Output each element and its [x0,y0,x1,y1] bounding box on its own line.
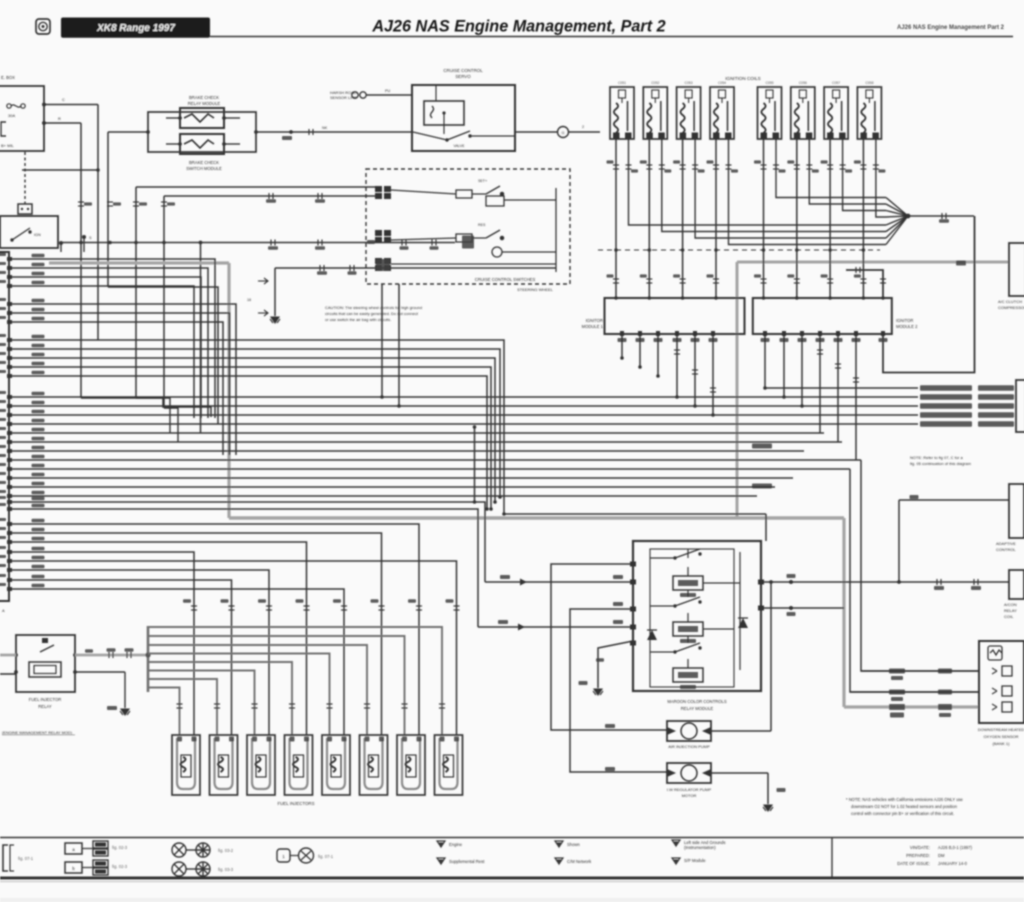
junction x474 y427 [473,425,477,429]
pin number ECM y433 [0,427,6,430]
instrument pack box right edge [1016,380,1024,432]
wire m2 pin5 elbow y442 [837,334,839,442]
wire ECM y561 to injector INJ8 [9,561,457,735]
wire riser x474 from bus y427 [474,427,476,502]
ignitor module 2 [753,298,892,334]
right box y484 [1009,484,1024,538]
wire connector circle right [569,131,600,133]
connector bracket on fuse box [1,122,6,136]
connector on coil T3 right wire [692,165,698,169]
junction x500 y497 [498,495,502,499]
connector on coil T4 left wire [713,165,719,169]
wire label ECM y502 [32,497,45,501]
junction coil T5 left wire at dashed line [762,248,766,252]
svg-text:SET+: SET+ [478,179,487,183]
pin relay module left y564 [630,562,636,567]
fuel injector relay switch [40,645,54,652]
wire stack3 across [391,263,556,265]
relay K1 [180,108,224,128]
wire stack2 to resume switch [391,238,456,240]
comb wire to injector 5 [148,654,330,736]
pin number ECM y552 [0,546,6,549]
pin number ECM y442 [0,436,6,439]
pin ECM y460 [7,458,12,462]
pin ECM y397 [7,395,12,399]
svg-text:OXYGEN SENSOR: OXYGEN SENSOR [983,734,1018,739]
connector on injector INJ8 signal wire [454,606,460,610]
ground label [579,681,588,685]
node fuse box pin A [42,103,46,107]
wire label blob [282,136,292,140]
SET switch assembly [456,186,520,206]
wire riser x164 [163,196,165,408]
wire ECM y259 elbow x215 [9,259,215,418]
footer divider [831,837,833,877]
pin ECM y469 [7,467,12,471]
pin number ECM y367 [0,361,6,364]
connector on coil T8 right wire [873,165,879,169]
pin injector INJ8 right [454,737,459,742]
svg-text:FUEL INJECTOR: FUEL INJECTOR [29,697,62,702]
wire bundle loop to ignitor module 2 bottom pin [883,216,975,373]
pin ECM y376 [7,374,12,378]
pin number ECM y469 [0,463,6,466]
connector on bundle wire [942,213,946,219]
wire servo to connector circle [515,131,557,133]
connector on riser x81 [78,202,84,206]
connector on coil T2 left wire [646,165,652,169]
wire coil T4 right pin to bundle [729,139,887,245]
pin label x765 [761,338,770,342]
wire ECM y570 to injector INJ3 [9,570,269,735]
wire coil T6 right pin to bundle [809,139,886,204]
connector on coil T1 left wire [613,165,619,169]
ignition coil T4 [710,87,734,139]
connector on coil T4 left wire lower [713,279,719,283]
pin injector INJ1 right [192,737,197,742]
right box y570 [1009,570,1024,599]
wire riser x136 [135,187,137,398]
wire riser x899 [898,500,900,582]
wire fan segment coil T2 [886,216,908,232]
pin number ECM y415 [0,409,6,412]
header rule [210,36,1013,38]
relay RM1 switch [675,549,700,558]
legend ground symbols column 3 [672,840,680,846]
wire y500 to right box [899,499,1009,501]
wire pump M2 right [711,772,768,774]
connector arrow on wire y582 [520,579,527,586]
wire ECM y367 elbow down x491 [9,367,491,509]
svg-text:VIN/DATE:: VIN/DATE: [910,845,930,850]
wire ECM bus y460 to x856 [9,459,856,461]
comb wire to injector 4 [148,662,292,735]
wire label ECM y397 [32,392,45,396]
connector m2 pin6 [853,378,859,382]
connector on coil T5 left wire lower [761,279,767,283]
svg-text:30A: 30A [8,113,15,118]
ignition coil T6 [791,87,815,139]
svg-text:fig. 02-3: fig. 02-3 [112,845,128,850]
pin ignitor module top [648,296,652,300]
ground fuel injector relay [120,709,130,715]
svg-text:PU: PU [385,89,391,93]
svg-text:downstream O2 NOT for 1.02 hea: downstream O2 NOT for 1.02 heated sensor… [851,804,958,809]
svg-text:MAROON COLOR CONTROLS: MAROON COLOR CONTROLS [667,699,727,704]
connector m1 pin4 [674,350,680,354]
svg-text:MODULE 1: MODULE 1 [582,324,604,329]
connector on injector 3 supply wire [252,704,258,708]
wire m1 pin1 to bus y358 [621,334,623,358]
svg-text:FUEL INJECTORS: FUEL INJECTORS [277,801,314,806]
connector on injector 5 supply wire [327,704,333,708]
wire label ECM y589 [32,584,45,588]
wire label ECM y349 [32,344,45,348]
relay K1 fuse element [184,114,214,122]
svg-text:C057: C057 [832,81,840,85]
connector on coil T5 right wire [773,165,779,169]
wire x861 down to O2 row y671 [861,460,979,671]
wire drop to ground x125 [124,672,126,708]
junction y608 x791 [789,606,793,610]
wire coil T6 primary left pin down [796,139,798,298]
pin ECM y570 [7,568,12,572]
pin ignitor module bottom x640 [638,331,642,336]
pin injector INJ5 right [342,737,347,742]
svg-text:fig. 07-1: fig. 07-1 [18,856,34,861]
comb wire to injector 2 [148,679,217,735]
svg-text:A: A [2,608,5,613]
fuel injector INJ6 [360,735,388,795]
wire coil T3 primary left pin down [682,139,684,298]
wire m2 pin4 elbow y433 [819,334,821,433]
wire label ECM y460 [32,455,45,459]
pin ignitor module top [714,296,718,300]
wire ECM y322 elbow x223 [9,322,223,455]
footer top rule [0,837,1024,839]
pin ECM y433 [7,431,12,435]
wire ECM y268 elbow x208 [9,268,208,418]
pin ECM y367 [7,365,12,369]
fuel injector INJ2 [210,735,238,795]
pin number ECM y406 [0,400,6,403]
wire label right bus y406 [920,403,972,409]
gray wire relay to comb riser [75,654,148,657]
svg-text:fig. 05 continuation of this d: fig. 05 continuation of this diagram [910,461,972,466]
wire label ECM y286 [32,281,45,285]
svg-text:C054: C054 [718,81,726,85]
connector m2 pin4 [817,350,823,354]
wire bus y388 right [765,387,918,389]
connector on y268 [320,265,324,271]
pin number ECM y322 [0,316,6,319]
svg-text:Engine: Engine [449,842,463,847]
wire label ECM y509 [32,504,45,508]
ignition coil T8 [857,87,881,139]
wire into relay housing left [108,131,148,133]
pin injector INJ7 right [417,737,422,742]
wire label ECM y570 [32,565,45,569]
legend connector bracket [3,845,8,871]
pin ignitor module bottom x820 [818,331,822,336]
svg-text:AJ26 B,0-1 (1997): AJ26 B,0-1 (1997) [938,845,973,850]
wire vacuum to servo [366,94,412,96]
underline relay note [2,734,75,736]
wire coil T8 right pin to bundle [876,139,886,217]
svg-text:or use switch the air bag with: or use switch the air bag with circuits. [325,317,391,322]
wire cruise pin1 left run y187 [136,186,375,188]
fuel injector relay [16,635,75,692]
pin label x784 [780,338,789,342]
junction coil T8 left wire at dashed line [862,248,866,252]
wire left edge to relay lower pin [0,673,16,675]
wire label ECM y424 [32,419,45,423]
wire label ECM y277 [32,272,45,276]
comb riser x148 [147,626,150,692]
svg-text:C052: C052 [651,81,659,85]
wire ECM y277 elbow x201 [9,277,201,418]
wire label y692 a [889,690,905,695]
junction coil T4 left wire at dashed line [714,248,718,252]
relay pair housing [148,112,256,152]
wire label y707 a [889,704,905,710]
relay RM1 coil [673,576,703,590]
pin ignitor module bottom x658 [656,331,660,336]
svg-text:G: G [562,131,565,135]
connector stack 3 [375,258,391,271]
pin number ECM y533 [0,527,6,530]
pin ECM y552 [7,550,12,554]
wire coil T8 primary left pin down [862,139,864,298]
wire label ECM y322 [32,317,45,321]
svg-text:C055: C055 [765,81,773,85]
wire K1 right stub [224,117,240,119]
wire bundle to right [908,215,974,217]
connector on injector INJ3 signal wire [266,606,272,610]
wire ECM bus y469 to x850 [9,468,850,470]
gray wire into relay [0,654,16,657]
pin label x820 [816,338,825,342]
wire fan segment coil T3 [886,216,908,238]
wire switch1 to riser [520,199,556,201]
connector on coil T3 left wire lower [680,279,686,283]
svg-text:COIL: COIL [1004,614,1014,619]
pin number ECM y286 [0,280,6,283]
ground relay module pin [593,689,603,695]
footer bottom rule shadow [0,881,1024,883]
crossing blob x136 [134,241,138,245]
gray riser x844 [842,518,845,707]
svg-text:DATE OF ISSUE:: DATE OF ISSUE: [897,861,930,866]
junction x504 y514 [502,512,506,516]
pin number ECM y509 [0,503,6,506]
pin injector INJ4 right [304,737,309,742]
pin injector INJ4 left [290,737,295,742]
wire ECM bus y424 to x918 [9,423,918,425]
connector on coil T8 left wire lower [860,279,866,283]
connector stack3 blob [376,259,390,271]
svg-text:JANUARY 14-0: JANUARY 14-0 [938,861,968,866]
page bottom shade [0,898,1024,902]
crossing blob x81 [79,241,83,245]
wire dashed drop from fuse box [24,152,26,204]
node ECM top terminal [59,241,63,245]
node relay housing left pin [146,130,150,134]
wire ECM bus y442 to x842 [9,441,842,443]
pin injector INJ7 left [402,737,407,742]
wire m2 pin6 elbow y460 [855,334,857,460]
svg-text:C058: C058 [865,81,873,85]
wire drop to ground x275 [274,268,276,316]
connector label [221,599,229,602]
wire label ECM y496 [32,491,45,495]
gray long bus y518 [229,516,844,519]
connector on injector INJ7 signal wire [416,606,422,610]
wire m2 pin1 to bus y388 [764,334,766,388]
wire label ECM y561 [32,556,45,560]
pin ECM y487 [7,485,12,489]
svg-text:* NOTE: NAS vehicles with Cali: * NOTE: NAS vehicles with California emi… [846,797,964,802]
pin ECM y561 [7,559,12,563]
wire label y671 b [938,669,952,674]
pin injector INJ2 right [229,737,234,742]
svg-text:IGNITOR: IGNITOR [896,318,913,323]
pin ECM y313 [7,311,12,315]
svg-text:DOWNSTREAM HEATED: DOWNSTREAM HEATED [978,727,1024,732]
svg-text:R: R [58,116,61,121]
wire drop x766 to relay module top [765,514,767,541]
junction comb riser at relay wire [145,652,150,657]
pin label x856 [852,338,861,342]
svg-text:2: 2 [582,125,584,129]
svg-text:C: C [62,97,65,102]
pin ECM y358 [7,356,12,360]
svg-text:C056: C056 [799,81,807,85]
wire fan segment coil T4 [886,216,908,245]
legend connector square row2 [65,862,82,873]
wire label ECM y340 [32,335,45,339]
pin ECM y259 [7,257,12,261]
pin ECM y533 [7,531,12,535]
svg-text:NOTE: Refer to fig 07, C for a: NOTE: Refer to fig 07, C for a [910,455,963,460]
ignition switch box [0,216,58,248]
pin ignitor module top [795,296,799,300]
junction coil T1 left wire at dashed line [614,248,618,252]
wire label right bus y388 [920,385,972,391]
pin ignitor module bottom x622 [620,331,624,336]
wire ECM y580 to injector INJ2 [9,580,232,735]
wire label y242 [367,240,375,244]
wire label y707 b [938,704,952,710]
wire label cluster m2 area 2 [752,484,772,489]
svg-text:A/CON: A/CON [1004,602,1017,607]
gray wire y262 to AC box [737,261,1009,264]
connector circle G [558,127,569,138]
svg-text:RELAY: RELAY [38,704,52,709]
pin ECM y268 [7,266,12,270]
wire ECM bus y406 to x918 [9,405,918,407]
pin injector INJ2 left [215,737,220,742]
connector on coil T2 right wire [659,165,665,169]
svg-text:I.W REGULATOR PUMP: I.W REGULATOR PUMP [667,787,712,792]
pin relay module left y582 [630,580,636,585]
wire coil T4 primary left pin down [715,139,717,298]
wire label y627 [498,620,508,624]
connector on riser x110 [107,202,113,206]
pin relay module left y609 [630,607,636,612]
wire stack1 to set switch [391,190,456,194]
ground pump M2 [763,805,773,811]
cruise control switch pack dashed box [366,169,570,284]
heated oxygen sensor box [979,641,1024,723]
svg-text:Shown: Shown [567,842,580,847]
connector on coil T3 left wire [680,165,686,169]
svg-text:NK: NK [322,126,328,130]
pin ignitor module top [762,296,766,300]
pin ignitor module bottom x677 [675,331,679,336]
connector stack 2 [375,230,391,243]
svg-text:fig. 03-2: fig. 03-2 [218,848,234,853]
junction coil T6 left wire at dashed line [795,248,799,252]
wire fan segment coil T7 [886,211,908,217]
wire y692 into O2 box [850,691,979,693]
connector m1 pin6 [710,388,716,392]
junction x487 y509 [485,507,489,511]
ignition switch contact [12,228,30,240]
svg-text:BRAKE CHECK: BRAKE CHECK [189,160,219,165]
svg-text:RES: RES [478,223,486,227]
wire label pump M2 [605,767,615,771]
wire ECM bus y397 to x918 [9,396,918,398]
connector on injector INJ6 signal wire [379,606,385,610]
wire y170 fuse box area to riser x98 [22,169,98,171]
wire K2 left stub [166,143,180,145]
pin number ECM y524 [0,518,6,521]
svg-text:IGNITION COILS: IGNITION COILS [725,76,760,81]
svg-text:RELAY MODULE: RELAY MODULE [188,101,221,106]
relay module inner wiring [650,549,740,670]
pin number ECM y349 [0,343,6,346]
wire label ECM y376 [32,371,45,375]
ground label right [777,788,786,792]
pin number ECM y277 [0,271,6,274]
connector on coil T7 left wire [827,165,833,169]
wire module pin y641 to ground [598,641,633,688]
pin number ECM y580 [0,574,6,577]
svg-text:XK8 Range 1997: XK8 Range 1997 [96,23,175,34]
connector on injector 2 supply wire [214,704,220,708]
pin label x802 [798,338,807,342]
connector on module2 top pin wire [880,279,886,283]
pin injector INJ6 left [365,737,370,742]
pin label x677 [673,338,682,342]
wire fan segment coil T8 [886,216,908,217]
engine control module ECM [0,252,9,601]
pin label x622 [618,338,627,342]
pin relay right lower [73,670,77,674]
pin ignitor module top [614,296,618,300]
connector C on servo wire [309,129,313,135]
svg-text:C051: C051 [618,81,626,85]
wire label cluster m2 area [752,444,772,449]
wire coil T2 primary left pin down [648,139,650,298]
wire label ECM y304 [32,299,45,303]
connector on coil T1 left wire lower [613,279,619,283]
pin ECM y277 [7,275,12,279]
servo inner wire to right pin [470,135,515,137]
wire fuse box pin A to riser [44,104,98,106]
connector on injector INJ2 signal wire [229,606,235,610]
